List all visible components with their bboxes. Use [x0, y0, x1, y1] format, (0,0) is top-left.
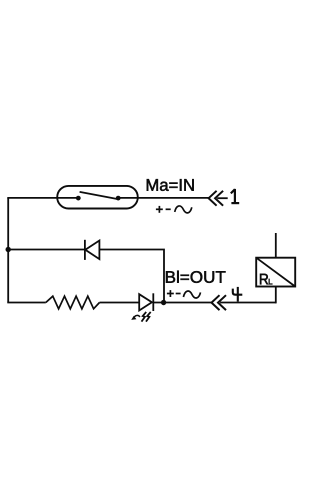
pin label 4	[233, 287, 243, 302]
wire LED to terminal 4	[153, 302, 211, 304]
label RL	[260, 274, 272, 285]
wire bottom branch left	[7, 302, 46, 304]
diode left wire	[8, 249, 85, 251]
load RL top lead	[275, 233, 277, 258]
reed switch left contact	[76, 196, 81, 201]
node B junction dot (diode drop to output)	[161, 300, 166, 305]
node A junction dot (rail to diode)	[6, 247, 11, 252]
label polarity top	[156, 206, 192, 213]
label Bl=OUT	[166, 271, 226, 283]
label Ma=IN	[147, 179, 194, 191]
diode right wire with corner down	[99, 250, 164, 303]
wire left rail	[7, 198, 9, 303]
wire terminal 1 stub	[217, 197, 228, 199]
reed switch blade	[80, 192, 119, 199]
wire resistor to LED	[100, 302, 140, 304]
load resistor RL diagonal	[256, 258, 295, 287]
load resistor RL box	[256, 258, 295, 287]
diode cathode bar	[84, 240, 86, 260]
terminal 4 chevron inner	[218, 295, 226, 310]
flash bolt 1	[142, 312, 147, 322]
LED triangle	[139, 294, 152, 310]
flash arrow squiggle	[134, 315, 140, 317]
wire terminal 4 to load	[220, 302, 276, 304]
label polarity bottom	[167, 290, 201, 298]
reed switch Ma body	[57, 186, 138, 209]
terminal 1 chevron outer	[209, 191, 217, 206]
reed switch right contact	[116, 196, 121, 201]
resistor zigzag	[46, 296, 100, 309]
wire top branch left	[7, 197, 78, 199]
pin label 1	[231, 189, 239, 203]
terminal 1 chevron inner	[215, 191, 223, 206]
terminal 4 chevron outer	[212, 295, 220, 310]
LED cathode bar	[152, 293, 154, 311]
flash bolt 2	[146, 312, 151, 322]
wire switch to terminal 1	[118, 197, 208, 199]
diode triangle	[85, 241, 99, 260]
load RL bottom lead	[275, 287, 277, 304]
